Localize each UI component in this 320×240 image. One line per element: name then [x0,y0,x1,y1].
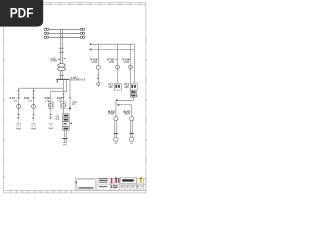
svg-text:kV: kV [72,103,75,106]
ruler tick marks left border [3,40,5,177]
label below F1 [16,128,21,129]
motor feeder M2 wire [115,100,117,116]
yellow stamp [140,178,142,183]
tick R1 [96,58,98,60]
contact tick M2 [114,133,118,135]
dark marks under stamp2 [113,185,117,186]
wire F1 tail [18,120,20,124]
wire junction main column [62,79,64,113]
svg-text:480: 480 [125,86,130,89]
tick R3 [128,58,130,60]
meter box row 3 [63,122,70,127]
svg-text:1x50: 1x50 [124,61,130,64]
sheet border left [3,2,5,193]
fuse F3 [50,117,52,119]
fuse R1 [97,78,99,80]
bottom row text blobs [115,186,143,189]
meter box row 4 [63,127,70,131]
junction tick F2 [33,90,35,92]
ground F2 [31,122,36,124]
panel box A text [131,91,136,93]
breaker F3 cell box [48,102,53,109]
label R2 box left [109,84,114,89]
svg-text:480: 480 [109,86,114,89]
load box F2 [32,124,35,127]
tick F2 bottom [33,114,35,116]
lamp R1 [97,82,100,85]
label F2 [24,97,33,102]
tick below M2 [115,142,117,144]
fuse F2 [33,117,35,119]
bus2 [51,90,67,92]
bus1 [19,87,64,89]
svg-text:25A: 25A [45,99,49,102]
label R2 [107,59,114,64]
tick R1 a [97,74,99,76]
load box F1 [17,124,20,127]
fuse F1 [18,117,20,119]
wire meter down (double) [64,131,66,138]
tick right of panel B [136,95,138,97]
label R3 [122,59,129,64]
disconnect tick lower [59,51,64,53]
svg-text:1x50: 1x50 [92,61,98,64]
wire panel B down [132,97,134,100]
switch mark F1 [18,97,20,99]
earth F3 [48,123,53,125]
sheet top ruler [4,2,146,4]
yellow stamp top [140,177,142,179]
label M3 [124,111,131,116]
title block dividers bottom row [125,184,140,190]
label below F3 [48,128,53,129]
title block outline [75,178,146,190]
label F3 [45,97,51,102]
ruler tick marks top [50,2,140,4]
incoming line L2 [93,49,134,51]
logo text blob [79,187,94,189]
svg-text:BUS 480V-1A: BUS 480V-1A [70,79,85,82]
label meter left [56,116,60,122]
contact bar F4 [62,138,67,140]
title block divider v6 [143,178,145,190]
wire VT tap [69,79,71,110]
tick F1 bottom [18,114,20,116]
label M2 [108,111,115,116]
feeder R1 wire [97,44,99,65]
feeder R3 wire [130,44,132,83]
arrow L2 [90,48,93,50]
breaker R1 [96,65,100,69]
svg-text:25A: 25A [13,99,17,102]
wire F2 tail [33,120,35,124]
arrow meter right [70,123,72,125]
switch mark F2 [33,97,35,99]
meter box row 2 [63,118,70,122]
label R1 [90,59,97,64]
breaker R2 [116,65,120,69]
line L3 [116,99,133,101]
logo cell rounded box [76,180,95,189]
label junction kV [70,76,85,81]
transformer T1 winding 1 [58,64,65,68]
tick VT tap [69,97,71,99]
title block divider v3 [113,178,115,190]
title block divider v5 [136,178,138,190]
contact tick M3 [129,133,133,135]
title text rows cell 2 [99,178,108,187]
tick below M3 [130,142,132,144]
svg-text:75kW: 75kW [124,113,131,116]
sheet border right [145,2,147,193]
feeder R2 wire [117,44,119,83]
wire R1 lower [97,69,99,86]
tick F4 top [62,93,64,95]
CT pair left phase A [44,28,46,30]
title block divider v4 [118,178,120,190]
red stamp 2 [115,178,117,183]
arrow L3 [116,99,119,101]
svg-text:PDF: PDF [10,6,34,22]
tick F2 top [33,93,35,95]
wire phase A [49,28,80,30]
red stamp 1 base [111,185,113,188]
breaker R3 [129,65,133,69]
label R3 box left [125,84,130,89]
breaker F4 [61,103,65,107]
ticks on secondary wires [59,75,63,77]
wire phase B [49,32,80,34]
wire junction to bus2 [66,79,68,91]
breaker F3 [49,103,53,107]
label VT tap [72,101,77,106]
wire phase C [49,36,80,38]
motor M2 [114,137,118,141]
breaker F1 [17,104,21,108]
label F1 [10,97,18,102]
load box R2 [114,83,121,90]
wire T1 primary drop (double) [60,29,62,63]
tick R2 [115,58,117,60]
wire T1 secondary drop (double) [60,71,62,80]
panel box B text [131,95,136,97]
breaker F4 cell box [61,102,66,109]
red stamp 1 [111,178,112,183]
svg-text:75kW: 75kW [108,113,115,116]
panel box A [130,91,136,94]
breaker F2 [32,104,36,108]
wire feeder F3 [50,91,52,117]
stub below bar left end [56,80,58,83]
wire feeder F2 [33,88,35,117]
logo cell corner tick [76,181,77,183]
arrow L1 [90,43,93,45]
incoming line L1 [93,43,134,45]
ground F1 [16,122,21,124]
wire below contact (double) [64,139,66,142]
load box R3 [130,83,137,90]
load box R2 text [115,85,117,88]
tick right of T1 label [58,57,65,60]
tick F3 bottom [50,114,52,116]
breaker M2 [114,116,118,120]
node main junction bar [56,78,69,80]
label below F2 [31,128,36,129]
CT pair right phase A [80,28,82,30]
load box R3 text [131,85,133,88]
company name bar [122,179,134,181]
wire M3 lower (double) [131,121,133,138]
motor feeder M3 wire [131,105,133,117]
svg-text:40A: 40A [58,99,62,102]
disconnect tick upper [59,47,64,49]
tick F1 top [18,93,20,95]
label T1 primary [50,57,58,62]
ruler tick marks bottom [11,190,72,193]
arrow L4 [118,104,121,106]
transformer T1 winding 2 [58,67,65,71]
arrow VT end [69,106,72,109]
svg-text:13.8kV: 13.8kV [50,60,58,63]
company name box [121,178,137,184]
title block divider h1 [97,183,146,185]
break tick a [63,142,67,144]
red stamp 2 cap [115,178,117,179]
break tick b [63,144,67,146]
CT pair left phase B [44,32,46,34]
ruler tick marks right border [145,40,147,160]
CT pair right phase B [80,32,82,34]
CT pair right phase C [80,36,82,38]
title block divider v1 [96,178,98,190]
sheet bottom ruler [4,190,146,193]
line L4 [118,104,132,106]
title block divider v2 [109,178,111,190]
breaker M3 [130,116,134,120]
panel box B [130,94,136,97]
wire M2 lower (double) [115,121,117,138]
wire feeder F1 [18,88,20,117]
switch mark F4 [62,97,64,99]
junction tick F1 [18,90,20,92]
svg-text:1x50: 1x50 [109,61,115,64]
meter box row 1 [63,114,70,118]
label F4 [57,97,63,102]
motor M3 [129,137,133,141]
dark tag right of red stamp 2 [118,178,120,182]
CT pair left phase C [44,36,46,38]
svg-text:25A: 25A [28,99,32,102]
bus end drop wire [133,44,135,83]
